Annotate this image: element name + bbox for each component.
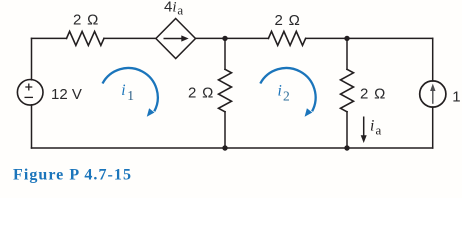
- resistor R4 2ohm right vertical zigzag: [341, 69, 354, 111]
- caption Figure P 4.7-15: [13, 167, 132, 184]
- wire right branch lower: [346, 112, 348, 148]
- label R2 value 2 ohm: [275, 12, 301, 29]
- svg-text:Figure P 4.7-15: Figure P 4.7-15: [13, 167, 132, 184]
- wire left vertical upper: [31, 38, 33, 79]
- label R3 value 2 ohm: [188, 84, 214, 101]
- svg-text:ia: ia: [370, 118, 382, 138]
- wire top segment D: [306, 37, 433, 39]
- resistor R2 2ohm top-right zigzag: [268, 31, 305, 45]
- wire bottom: [32, 147, 433, 149]
- dependent source diamond 4ia: [156, 19, 196, 59]
- voltage source V1 circle: [17, 80, 43, 106]
- label R4 value 2 ohm: [360, 85, 386, 102]
- label dependent source 4ia: [164, 0, 183, 17]
- svg-text:2 Ω: 2 Ω: [275, 12, 301, 29]
- mesh current i1 arc: [103, 68, 158, 117]
- label V1 value 12 V: [51, 86, 82, 103]
- current source I1 circle: [420, 81, 446, 107]
- voltage source minus sign: [25, 96, 34, 98]
- svg-text:2 Ω: 2 Ω: [188, 84, 214, 101]
- svg-text:i2: i2: [278, 83, 290, 104]
- dependent source arrow: [164, 35, 189, 41]
- svg-text:4ia: 4ia: [164, 0, 183, 17]
- svg-text:12 V: 12 V: [51, 86, 82, 103]
- wire top segment A: [32, 37, 67, 39]
- wire top segment C: [196, 37, 269, 39]
- wire middle branch lower: [224, 112, 226, 148]
- wire middle branch upper: [224, 38, 226, 69]
- voltage source plus sign: [25, 84, 32, 91]
- node dot bottom-right: [344, 145, 349, 150]
- label current ia: [370, 118, 382, 138]
- node dot top-right: [344, 36, 349, 41]
- resistor R3 2ohm middle vertical zigzag: [219, 69, 232, 111]
- wire far-right vertical lower: [432, 107, 434, 148]
- current source up arrow: [430, 84, 435, 104]
- node dot top-middle: [222, 36, 227, 41]
- label I1 value 1: [452, 88, 460, 105]
- svg-text:2 Ω: 2 Ω: [360, 85, 386, 102]
- label R1 value 2 ohm: [73, 12, 99, 29]
- wire left vertical lower: [31, 105, 33, 148]
- resistor R1 2ohm top-left zigzag: [67, 31, 104, 45]
- node dot bottom-middle: [222, 145, 227, 150]
- current ia arrow: [361, 117, 367, 144]
- svg-text:1: 1: [452, 88, 460, 105]
- label mesh current i1: [121, 82, 134, 103]
- svg-text:i1: i1: [121, 82, 134, 103]
- wire top segment B: [104, 37, 156, 39]
- mesh current i2 arc: [260, 68, 315, 117]
- wire far-right vertical upper: [432, 38, 434, 81]
- wire right branch upper: [346, 38, 348, 69]
- label mesh current i2: [278, 83, 290, 104]
- svg-text:2 Ω: 2 Ω: [73, 12, 99, 29]
